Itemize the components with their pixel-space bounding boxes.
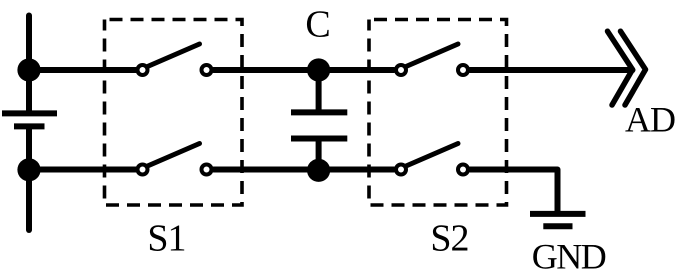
wire (S2 bottom switch to ground) xyxy=(470,170,558,213)
node junction dot (capacitor top) xyxy=(307,58,330,81)
dashed box S1 xyxy=(105,20,243,206)
node junction dot (battery -, bottom-left) xyxy=(17,158,40,181)
svg-text:GND: GND xyxy=(532,236,606,276)
wire (S2 top switch to AD output) xyxy=(470,67,633,73)
switch S1a (top) xyxy=(138,44,212,75)
node junction dot (battery +, top-left) xyxy=(17,58,40,81)
output connector AD (double chevron) xyxy=(608,31,646,105)
capacitor C xyxy=(291,70,347,170)
svg-text:S2: S2 xyxy=(430,218,468,260)
node junction dot (capacitor bottom) xyxy=(307,159,330,182)
wire (S1 top switch to node C top) xyxy=(214,67,395,73)
dashed box S2 xyxy=(369,20,507,206)
ground GND xyxy=(530,214,586,226)
switch S2b (bottom) xyxy=(396,144,468,175)
switch S2a (top) xyxy=(396,44,468,75)
switch S1b (bottom) xyxy=(138,144,212,175)
svg-text:AD: AD xyxy=(625,100,675,140)
svg-text:C: C xyxy=(305,4,330,46)
battery V1 (left source) xyxy=(2,16,57,231)
wire (battery - to S1 bottom switch) xyxy=(29,167,136,173)
wire (S1 bottom switch to node C bottom) xyxy=(214,167,395,173)
wire (battery + to S1 top switch) xyxy=(29,67,136,73)
svg-text:S1: S1 xyxy=(147,218,185,260)
